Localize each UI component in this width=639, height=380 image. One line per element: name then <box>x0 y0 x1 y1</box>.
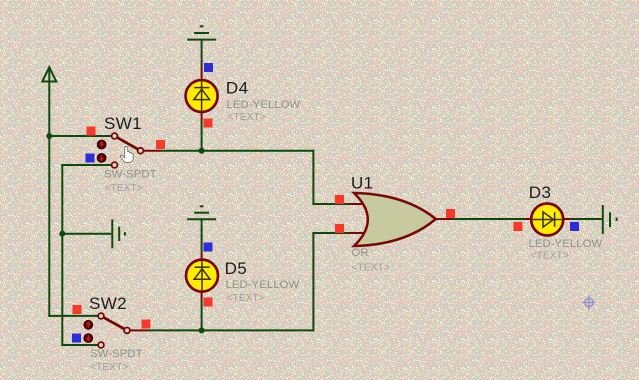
ground GND4 (right of D3, rotated) <box>603 205 617 234</box>
svg-text:LED-YELLOW: LED-YELLOW <box>226 279 300 291</box>
LED D4 <box>186 67 218 120</box>
svg-text:<TEXT>: <TEXT> <box>90 362 128 373</box>
state square red (U1 input B) <box>335 224 344 233</box>
toggle button down (SW2) <box>83 333 93 343</box>
svg-text:<TEXT>: <TEXT> <box>531 251 569 262</box>
ground GND2 (above D4) <box>187 26 216 39</box>
or-gate U1 <box>349 193 452 246</box>
wire: GND3 to D5 <box>201 219 203 252</box>
cursor hand pointer <box>120 146 133 162</box>
wire: SW1 throw2 to ground rail <box>61 164 111 166</box>
svg-text:<TEXT>: <TEXT> <box>352 263 390 274</box>
wire: into gate input A <box>312 203 350 205</box>
svg-text:SW1: SW1 <box>104 114 142 133</box>
state square blue (D4) <box>204 63 213 72</box>
wire: D3 to ground <box>564 218 602 220</box>
svg-text:<TEXT>: <TEXT> <box>105 183 143 194</box>
svg-text:OR: OR <box>352 247 369 259</box>
wire: power rail vertical <box>48 67 50 317</box>
state square red (U1 input A) <box>335 195 344 204</box>
state square red (U1 output) <box>446 209 455 218</box>
toggle button down (SW1) <box>97 153 107 163</box>
svg-text:SW-SPDT: SW-SPDT <box>104 169 157 181</box>
wire: rail to SW1 throw1 <box>48 135 111 137</box>
svg-text:D4: D4 <box>226 79 249 98</box>
wire: D4 to junction <box>201 120 203 151</box>
wire: GND2 to D4 <box>201 40 203 67</box>
state square red (SW1 throw1) <box>87 127 96 136</box>
junction ground tap <box>59 231 65 237</box>
ground GND1 (rotated, left middle) <box>112 219 125 248</box>
svg-text:U1: U1 <box>351 174 374 193</box>
state square red (D4) <box>204 119 213 128</box>
svg-text:SW2: SW2 <box>89 294 127 313</box>
svg-text:LED-YELLOW: LED-YELLOW <box>529 238 603 250</box>
power symbol (arrow) <box>42 67 56 81</box>
toggle button up (SW2) <box>83 320 93 330</box>
svg-text:<TEXT>: <TEXT> <box>228 112 266 123</box>
wire: ground tap to ground symbol <box>62 233 111 235</box>
toggle button up (SW1) <box>97 140 107 150</box>
svg-text:LED-YELLOW: LED-YELLOW <box>227 99 301 111</box>
LED D3 <box>525 204 571 236</box>
junction D4/SW1 <box>199 148 205 154</box>
wire: D5 to junction <box>201 300 203 331</box>
state square blue (SW2 throw2) <box>72 334 81 343</box>
svg-text:D5: D5 <box>225 259 248 278</box>
state square red (SW1 pole) <box>156 140 165 149</box>
junction D5/SW2 <box>199 327 205 333</box>
state square red (D5) <box>204 298 213 307</box>
svg-text:D3: D3 <box>529 183 552 202</box>
svg-text:<TEXT>: <TEXT> <box>227 293 265 304</box>
svg-text:SW-SPDT: SW-SPDT <box>90 348 143 360</box>
state square red (SW2 throw1) <box>73 305 82 314</box>
state square blue (D5) <box>204 243 213 252</box>
state square red (D3) <box>514 222 523 231</box>
switch SW1 <box>112 133 161 168</box>
ground GND3 (above D5) <box>187 206 216 219</box>
origin marker <box>583 295 596 310</box>
wire: vertical to gate input A <box>312 150 314 204</box>
wire: SW2 pole net <box>148 329 314 331</box>
wire: into gate input B <box>312 232 350 234</box>
wire: gate output to D3 <box>450 218 525 220</box>
wire: SW1 pole net to gate <box>161 150 313 152</box>
state square red (SW2 pole) <box>142 320 151 329</box>
junction at rail/SW1 <box>46 133 52 139</box>
wire: ground rail vertical <box>61 165 63 345</box>
wire: SW2 throw2 to ground rail <box>61 344 98 346</box>
state square blue (D3) <box>570 222 579 231</box>
wire: vertical to gate input B <box>312 233 314 331</box>
state square blue (SW1 throw2) <box>86 154 95 163</box>
LED D5 <box>186 252 218 300</box>
switch SW2 <box>98 313 147 348</box>
wire: rail to SW2 throw1 <box>48 315 98 317</box>
